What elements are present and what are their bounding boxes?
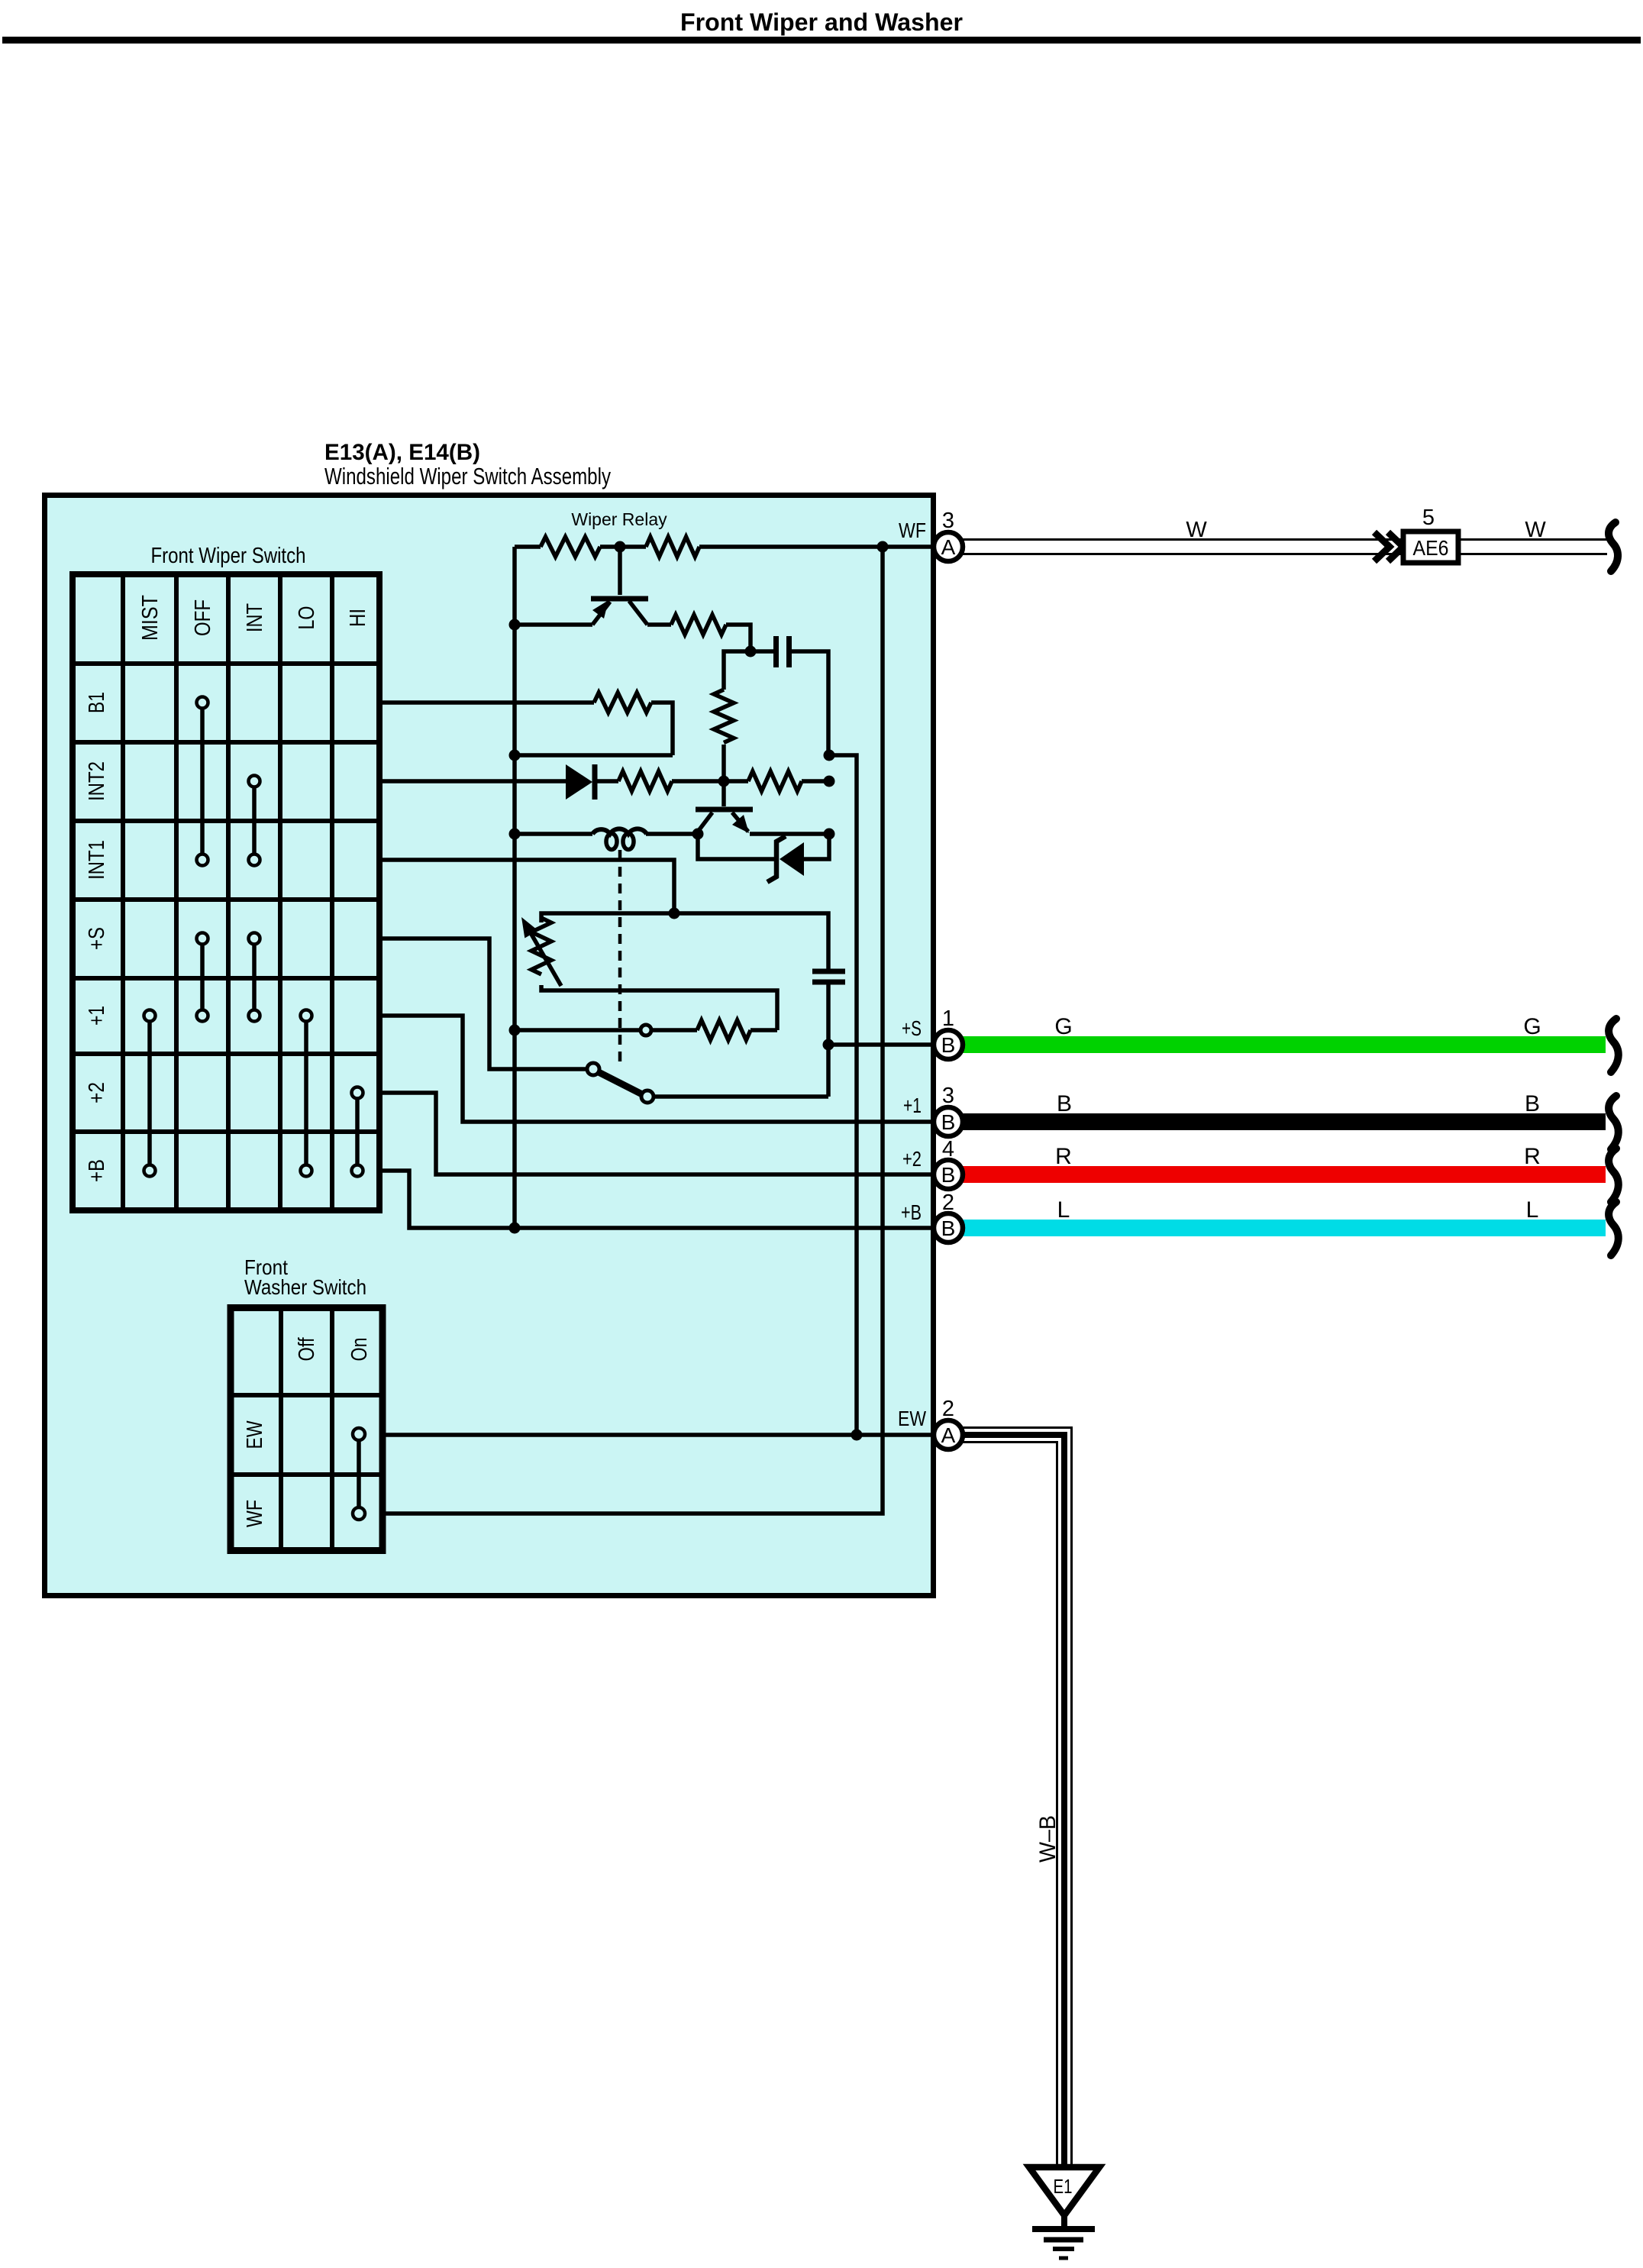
pin number 2 (+B) xyxy=(942,1191,954,1215)
wire VR1 bottom loop xyxy=(541,985,777,1030)
wire oscillator node to EW drop xyxy=(829,755,857,1435)
svg-text:B1: B1 xyxy=(85,692,109,713)
washer contact point On/WF xyxy=(353,1507,365,1520)
svg-text:+1: +1 xyxy=(85,1006,109,1026)
wire osc node to potentiometer xyxy=(541,913,674,922)
svg-text:R: R xyxy=(1524,1144,1541,1169)
svg-text:Front Wiper and Washer: Front Wiper and Washer xyxy=(680,8,963,36)
wire node to R4 top xyxy=(724,651,750,690)
junction rail-coil xyxy=(509,829,521,840)
transistor Q1 xyxy=(591,599,648,625)
title: Front Wiper and Washer xyxy=(680,8,963,36)
svg-text:A: A xyxy=(941,1423,956,1447)
junction block AE6 xyxy=(1403,531,1458,563)
svg-text:EW: EW xyxy=(898,1407,926,1430)
pin WF connector A xyxy=(934,532,963,561)
label R right xyxy=(1524,1144,1541,1169)
junction R3-C1-R4 node xyxy=(745,646,757,657)
front wiper switch table xyxy=(69,571,383,1213)
wire Q1 collector to R3 xyxy=(647,622,671,627)
pin +1 connector B xyxy=(934,1107,963,1136)
svg-text:+2: +2 xyxy=(85,1082,109,1103)
contact link OFF +S-+1 xyxy=(200,939,205,1016)
svg-text:+S: +S xyxy=(85,927,109,950)
svg-text:L: L xyxy=(1526,1197,1539,1223)
svg-text:MIST: MIST xyxy=(138,595,163,641)
contact point LO/+B xyxy=(301,1165,312,1177)
resistor R3 xyxy=(671,615,726,635)
svg-text:OFF: OFF xyxy=(191,599,215,636)
contact point MIST/+1 xyxy=(144,1010,156,1022)
contact point HI/+2 xyxy=(352,1087,363,1099)
svg-text:+B: +B xyxy=(85,1159,109,1182)
box label E13(A), E14(B) xyxy=(324,440,480,465)
svg-text:WF: WF xyxy=(899,519,926,542)
pin +2 connector B xyxy=(934,1160,963,1189)
label Front Wiper Switch xyxy=(151,544,306,568)
svg-text:L: L xyxy=(1057,1197,1070,1223)
wire EW row xyxy=(386,1433,934,1437)
svg-text:Off: Off xyxy=(295,1337,319,1362)
svg-text:Wiper Relay: Wiper Relay xyxy=(571,509,667,529)
wire R5 to rail node xyxy=(515,703,673,755)
svg-text:LO: LO xyxy=(295,606,319,630)
label Wiper Relay xyxy=(571,509,667,529)
contact link LO +1-+B xyxy=(304,1016,308,1171)
svg-text:G: G xyxy=(1054,1014,1072,1039)
wire R6 to Q2 base xyxy=(672,779,724,783)
contact point INT/INT1 xyxy=(249,855,260,866)
svg-text:B: B xyxy=(941,1216,956,1240)
junction R1-R2 node xyxy=(615,541,626,553)
resistor R6 xyxy=(618,771,672,791)
label +B xyxy=(901,1200,922,1224)
junction Q2 base node xyxy=(718,776,730,787)
svg-text:EW: EW xyxy=(243,1420,267,1449)
contact point INT/INT2 xyxy=(249,776,260,787)
zener diode D2 xyxy=(698,834,829,882)
wire R3 to node xyxy=(726,625,750,651)
resistor R2 xyxy=(646,537,699,557)
washer switch contact link xyxy=(357,1434,361,1514)
wire L (+B output) xyxy=(963,1220,1606,1236)
svg-text:E13(A), E14(B): E13(A), E14(B) xyxy=(324,440,480,465)
svg-text:G: G xyxy=(1523,1014,1541,1039)
washer contact point On/EW xyxy=(353,1428,365,1440)
resistor R8 xyxy=(651,1020,777,1040)
label +2 xyxy=(902,1147,922,1171)
label EW pin xyxy=(898,1407,926,1430)
svg-text:On: On xyxy=(347,1338,372,1362)
svg-text:INT2: INT2 xyxy=(85,761,109,801)
junction rail-osc contact xyxy=(509,1025,521,1036)
svg-text:B: B xyxy=(941,1163,956,1187)
capacitor C2 xyxy=(812,971,845,1097)
contact point LO/+1 xyxy=(301,1010,312,1022)
break squiggle B wire xyxy=(1609,1096,1619,1149)
wire left rail xyxy=(512,547,517,1226)
wire INT2 row to diode xyxy=(383,779,566,783)
contact point OFF/+1 xyxy=(197,1010,208,1022)
wiper table row headers xyxy=(85,692,109,1182)
svg-text:+B: +B xyxy=(901,1200,922,1224)
svg-text:Front Wiper Switch: Front Wiper Switch xyxy=(151,544,306,568)
front washer switch table xyxy=(228,1304,386,1553)
svg-text:+S: +S xyxy=(902,1016,922,1040)
svg-text:3: 3 xyxy=(942,509,954,533)
resistor R1 xyxy=(541,537,600,557)
inductor L1 coil xyxy=(515,829,698,849)
resistor R4 xyxy=(714,690,734,743)
svg-text:INT: INT xyxy=(243,603,267,632)
pin number 2 (EW) xyxy=(942,1397,954,1421)
contact point MIST/+B xyxy=(144,1165,156,1177)
transistor Q1 base lead xyxy=(618,547,622,595)
transistor Q2 xyxy=(696,809,753,833)
wire osc node to C2 xyxy=(674,913,828,971)
label G right xyxy=(1523,1014,1541,1039)
junction C1-EW drop xyxy=(824,750,835,761)
diode D1 xyxy=(566,764,618,800)
wire rail to osc contact xyxy=(515,1028,639,1032)
junction rail-R5 xyxy=(509,750,521,761)
break squiggle L wire xyxy=(1609,1202,1619,1255)
ground E1 triangle xyxy=(1029,2167,1099,2215)
wiper table column headers xyxy=(138,595,370,641)
label +1 xyxy=(903,1094,922,1117)
pin EW connector A xyxy=(934,1420,963,1449)
svg-text:2: 2 xyxy=(942,1397,954,1421)
ground hatch xyxy=(1032,2229,1095,2258)
break squiggle G wire xyxy=(1609,1019,1619,1072)
svg-text:B: B xyxy=(941,1033,956,1057)
title rule xyxy=(2,37,1641,44)
wire Q1 emitter to rail xyxy=(515,622,592,627)
label B left xyxy=(1057,1091,1072,1116)
label L left xyxy=(1057,1197,1070,1223)
wire R (+2 output) xyxy=(963,1166,1606,1183)
wire +2 row stepped xyxy=(383,1093,934,1174)
svg-text:E1: E1 xyxy=(1054,2175,1073,2198)
wire +S row stepped xyxy=(383,939,587,1069)
svg-text:1: 1 xyxy=(942,1006,954,1031)
label B right xyxy=(1525,1091,1540,1116)
mechanical link dashed xyxy=(618,850,622,1065)
label WF pin xyxy=(899,519,926,542)
break squiggle R wire xyxy=(1609,1149,1619,1202)
svg-text:Washer Switch: Washer Switch xyxy=(244,1275,366,1299)
junction coil-Q2 emitter xyxy=(692,829,704,840)
svg-text:Windshield Wiper Switch Assemb: Windshield Wiper Switch Assembly xyxy=(324,463,611,489)
pin +S connector B xyxy=(934,1030,963,1059)
wire G (+S output) xyxy=(963,1036,1606,1053)
wire INT1 row to osc node xyxy=(383,860,674,913)
junction Q2 collector node xyxy=(824,829,835,840)
label W left xyxy=(1186,518,1207,542)
capacitor C1 xyxy=(750,636,828,754)
connector arrows to AE6 xyxy=(1374,532,1403,561)
wire W-B black stripe xyxy=(963,1435,1064,2228)
contact link INT INT2-INT1 xyxy=(252,781,257,860)
contact point INT/+S xyxy=(249,933,260,945)
wire switch to C2 bottom xyxy=(654,1094,828,1099)
svg-text:INT1: INT1 xyxy=(85,840,109,880)
pin number 1 (+S) xyxy=(942,1006,954,1031)
svg-text:B: B xyxy=(1057,1091,1072,1116)
svg-text:HI: HI xyxy=(346,609,370,627)
junction WF node xyxy=(877,541,889,553)
wire +B row stepped xyxy=(383,1171,934,1228)
label +S xyxy=(902,1016,922,1040)
svg-text:W: W xyxy=(1525,518,1546,542)
wire W-B hollow outline xyxy=(963,1428,1072,2166)
junction INT1-osc node xyxy=(669,908,680,919)
label W-B xyxy=(1035,1815,1060,1863)
wire +1 row stepped xyxy=(383,1016,934,1122)
washer table headers xyxy=(243,1337,372,1527)
wire Q2 collector to node xyxy=(750,832,829,836)
pin number 3 (WF) xyxy=(942,509,954,533)
svg-text:B: B xyxy=(941,1110,956,1134)
pin number 5 (AE6) xyxy=(1422,506,1435,530)
svg-text:5: 5 xyxy=(1422,506,1435,530)
svg-text:A: A xyxy=(941,535,956,559)
junction rail-Q1 emitter xyxy=(509,619,521,631)
contact point OFF/+S xyxy=(197,933,208,945)
wire WF washer to output xyxy=(386,547,883,1514)
pin +B connector B xyxy=(934,1213,963,1242)
wire B1 row to R5 xyxy=(383,700,594,705)
oscillator contact point xyxy=(641,1025,651,1035)
svg-text:+2: +2 xyxy=(902,1147,922,1171)
svg-text:AE6: AE6 xyxy=(1413,536,1449,560)
svg-text:WF: WF xyxy=(243,1500,267,1527)
pin number 3 (+1) xyxy=(942,1084,954,1108)
pin number 4 (+2) xyxy=(942,1137,954,1161)
svg-text:B: B xyxy=(1525,1091,1540,1116)
relay switch arm xyxy=(587,1063,654,1103)
junction EW wire node xyxy=(851,1430,863,1441)
contact point OFF/INT1 xyxy=(197,855,208,866)
label L right xyxy=(1526,1197,1539,1223)
resistor R7 xyxy=(724,771,829,791)
box label Windshield Wiper Switch Assembly xyxy=(324,463,611,489)
label W right xyxy=(1525,518,1546,542)
component box E13/E14 Windshield Wiper Switch Assembly xyxy=(45,496,934,1596)
contact point HI/+B xyxy=(352,1165,363,1177)
svg-text:R: R xyxy=(1055,1144,1072,1169)
svg-text:3: 3 xyxy=(942,1084,954,1108)
label Front / Washer Switch xyxy=(244,1255,366,1299)
label G left xyxy=(1054,1014,1072,1039)
wire W hollow to AE6 xyxy=(963,540,1607,554)
resistor R5 xyxy=(594,693,651,712)
label R left xyxy=(1055,1144,1072,1169)
contact link MIST +1-+B xyxy=(147,1016,152,1171)
wire R4 bottom to base node xyxy=(721,745,726,781)
contact link INT +S-+1 xyxy=(252,939,257,1016)
svg-text:W–B: W–B xyxy=(1035,1815,1060,1863)
wire B (+1 output) xyxy=(963,1113,1606,1130)
wire top relay feed xyxy=(515,544,934,549)
contact point OFF/B1 xyxy=(197,697,208,709)
junction rail-+B wire xyxy=(509,1223,521,1234)
svg-text:W: W xyxy=(1186,518,1207,542)
junction R7 right node xyxy=(824,776,835,787)
junction C2-+S pin node xyxy=(823,1039,834,1051)
potentiometer VR1 xyxy=(521,917,561,986)
contact link OFF B1-INT1 xyxy=(200,703,205,860)
contact point INT/+1 xyxy=(249,1010,260,1022)
contact link HI +2-+B xyxy=(355,1093,360,1171)
transistor Q2 base lead xyxy=(721,781,726,806)
break squiggle W wire xyxy=(1609,522,1618,571)
svg-text:+1: +1 xyxy=(903,1094,922,1117)
wire +S pin feed xyxy=(828,1042,934,1047)
